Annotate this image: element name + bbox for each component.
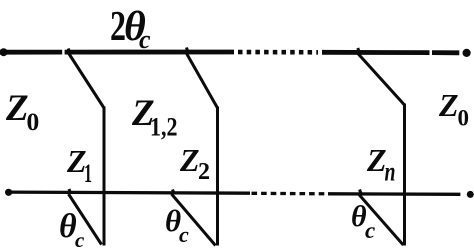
wire: bottom return line, dashed (continuation) section [252,192,328,196]
node: bottom-right terminal dot [467,191,474,198]
stub Z1: slanted connection from top line (with junction tick) [68,49,104,109]
svg-text:c: c [139,25,151,54]
label: stub impedance Z2 [179,142,210,185]
svg-text:n: n [385,157,396,187]
label: stub electrical length theta_c (stub Zn) [351,200,375,243]
svg-text:c: c [179,222,189,247]
label: stub impedance Zn [366,142,396,187]
node: output port terminal dot (top-right) [463,49,471,57]
wire: top main transmission line, left solid section (2*theta_c line) [0,50,62,55]
label: stub electrical length theta_c (stub Z2) [165,203,189,247]
svg-text:c: c [365,218,375,243]
label: connecting-line impedance Z1,2 [131,93,178,142]
stub Zn: slanted lower connection from bottom line (theta_c element, with junction tick) [359,190,404,246]
svg-text:c: c [75,228,85,248]
label: source impedance Z0 (left) [5,88,39,136]
svg-text:Z: Z [5,88,29,129]
wire: bottom return line, left solid section [8,192,250,193]
svg-text:Z: Z [179,142,200,178]
label: electrical length 2*theta_c of top connecting lines [110,4,151,54]
svg-text:0: 0 [27,107,40,136]
stub Z1: slanted lower connection from bottom line (theta_c element, with junction tick) [69,189,102,245]
label: stub electrical length theta_c (stub Z1) [59,208,85,248]
node: bottom-left terminal dot [5,189,12,196]
wire: top main line, right solid section [322,50,430,55]
stub Z2: slanted connection from top line (with junction tick) [186,48,218,109]
label: stub impedance Z1 [66,143,92,188]
svg-text:Z: Z [438,87,459,123]
label: load impedance Z0 (right) [438,87,469,131]
stub Z2: vertical transmission-line section [216,107,219,246]
svg-text:1: 1 [84,159,92,188]
stub Z2: slanted lower connection from bottom line (theta_c element, with junction tick) [172,190,216,246]
svg-text:1,2: 1,2 [150,113,178,142]
node: input port terminal dot (top-left) [0,48,8,56]
stub Zn: vertical transmission-line section [403,104,406,246]
stub Zn: slanted connection from top line (with junction tick) [357,48,405,105]
stub Z1: vertical transmission-line section [103,107,106,246]
svg-text:Z: Z [366,142,387,178]
wire: top main line, dotted (continuation) section [238,50,318,55]
svg-text:0: 0 [458,106,470,131]
wire: bottom return line, right solid section [328,192,460,196]
svg-text:2: 2 [198,159,210,185]
